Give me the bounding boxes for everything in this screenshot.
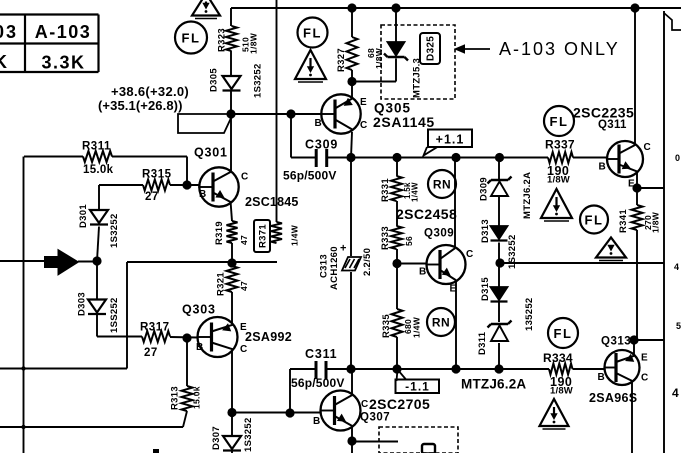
svg-text:+: + — [340, 243, 346, 255]
svg-text:4: 4 — [674, 262, 679, 272]
svg-text:2SA1145: 2SA1145 — [373, 114, 435, 130]
svg-text:56: 56 — [404, 236, 414, 246]
svg-text:FL: FL — [585, 213, 604, 228]
svg-text:R315: R315 — [142, 169, 172, 181]
svg-text:R334: R334 — [543, 351, 573, 365]
svg-text:D315: D315 — [480, 277, 491, 301]
svg-text:27: 27 — [144, 347, 158, 359]
svg-text:C: C — [240, 344, 247, 355]
svg-text:R319: R319 — [214, 221, 225, 245]
svg-text:D301: D301 — [78, 204, 89, 228]
svg-text:27: 27 — [145, 191, 159, 203]
svg-text:R313: R313 — [169, 386, 180, 410]
svg-text:R311: R311 — [82, 141, 111, 153]
svg-text:C: C — [241, 172, 248, 183]
svg-text:Q311: Q311 — [598, 119, 627, 131]
svg-text:R321: R321 — [215, 272, 226, 296]
svg-text:FL: FL — [303, 26, 322, 41]
svg-text:B: B — [315, 118, 322, 129]
svg-text:1/4W: 1/4W — [290, 224, 300, 246]
svg-text:2SA992: 2SA992 — [245, 330, 292, 344]
svg-text:E: E — [628, 179, 635, 190]
svg-text:D313: D313 — [480, 219, 491, 243]
svg-text:1/8W: 1/8W — [374, 47, 384, 69]
svg-text:135252: 135252 — [524, 297, 535, 331]
svg-text:2SC2705: 2SC2705 — [369, 396, 430, 412]
svg-text:C: C — [644, 142, 651, 153]
svg-text:3.3K: 3.3K — [41, 53, 85, 73]
svg-text:5: 5 — [676, 321, 681, 331]
svg-text:A-103: A-103 — [35, 22, 92, 42]
svg-text:47: 47 — [239, 281, 249, 291]
svg-text:1/8W: 1/8W — [547, 175, 570, 186]
svg-text:C309: C309 — [305, 138, 338, 152]
svg-text:R333: R333 — [380, 226, 391, 250]
svg-text:RN: RN — [433, 178, 451, 192]
svg-text:B: B — [199, 189, 206, 200]
svg-text:+1.1: +1.1 — [436, 133, 465, 147]
svg-text:MTZJ6.2A: MTZJ6.2A — [522, 172, 533, 219]
svg-text:FL: FL — [550, 114, 569, 129]
svg-text:B: B — [313, 416, 320, 427]
svg-text:0: 0 — [675, 153, 680, 163]
svg-text:B: B — [419, 267, 426, 278]
svg-text:B: B — [599, 162, 606, 173]
svg-text:D325: D325 — [426, 36, 437, 61]
svg-text:R371: R371 — [257, 224, 268, 248]
svg-text:(+35.1(+26.8)): (+35.1(+26.8)) — [98, 98, 183, 113]
svg-text:FL: FL — [182, 31, 201, 46]
svg-text:ACH1260: ACH1260 — [329, 246, 340, 290]
svg-text:1S3252: 1S3252 — [243, 417, 254, 452]
svg-text:C: C — [466, 249, 473, 260]
svg-text:1/4W: 1/4W — [410, 182, 419, 202]
svg-text:03: 03 — [0, 22, 18, 42]
svg-text:R335: R335 — [381, 314, 392, 338]
svg-text:K: K — [0, 52, 9, 72]
svg-text:+38.6(+32.0): +38.6(+32.0) — [111, 84, 189, 99]
svg-text:2SC2458: 2SC2458 — [396, 206, 457, 222]
svg-text:47: 47 — [239, 235, 249, 245]
svg-text:C: C — [361, 399, 368, 410]
svg-text:2SC1845: 2SC1845 — [245, 195, 299, 209]
svg-text:1SS252: 1SS252 — [109, 297, 120, 333]
svg-text:D307: D307 — [211, 426, 222, 450]
svg-text:C311: C311 — [305, 347, 337, 361]
svg-text:D311: D311 — [477, 331, 488, 355]
svg-text:MTZJ5.3: MTZJ5.3 — [411, 58, 422, 98]
svg-text:C: C — [641, 373, 648, 384]
svg-text:B: B — [598, 372, 605, 383]
svg-text:E: E — [450, 284, 457, 295]
svg-text:1S3252: 1S3252 — [507, 234, 518, 269]
svg-text:A-103 ONLY: A-103 ONLY — [499, 39, 620, 59]
svg-text:R323: R323 — [216, 28, 227, 52]
svg-text:1S3252: 1S3252 — [252, 63, 263, 98]
svg-text:E: E — [240, 322, 247, 333]
svg-text:C: C — [360, 120, 367, 131]
svg-text:Q307: Q307 — [360, 412, 390, 424]
svg-text:Q313: Q313 — [601, 336, 631, 348]
svg-text:Q303: Q303 — [182, 303, 216, 317]
svg-text:D303: D303 — [76, 292, 87, 316]
svg-text:B: B — [196, 342, 203, 353]
svg-text:4: 4 — [672, 386, 679, 400]
svg-text:56p/500V: 56p/500V — [291, 376, 345, 390]
svg-text:Q301: Q301 — [194, 146, 228, 160]
svg-text:1/8W: 1/8W — [249, 32, 259, 54]
svg-text:1/8W: 1/8W — [651, 211, 661, 233]
svg-text:R331: R331 — [380, 178, 391, 202]
svg-text:15.0k: 15.0k — [192, 386, 202, 409]
svg-text:Q309: Q309 — [424, 228, 454, 240]
svg-text:56p/500V: 56p/500V — [283, 169, 337, 183]
svg-text:2.2/50: 2.2/50 — [362, 248, 373, 276]
svg-text:E: E — [360, 97, 367, 108]
svg-text:E: E — [641, 353, 648, 364]
svg-text:R341: R341 — [618, 209, 629, 233]
svg-text:D309: D309 — [478, 177, 489, 201]
svg-text:R337: R337 — [545, 138, 575, 152]
svg-text:R317: R317 — [140, 322, 170, 334]
svg-text:C313: C313 — [318, 254, 329, 278]
svg-text:15.0k: 15.0k — [83, 164, 114, 176]
svg-text:-1.1: -1.1 — [405, 380, 430, 394]
svg-text:1S3252: 1S3252 — [109, 213, 120, 248]
svg-text:1/8W: 1/8W — [550, 386, 573, 397]
svg-text:FL: FL — [554, 326, 573, 341]
svg-text:D305: D305 — [208, 68, 219, 92]
svg-text:R327: R327 — [336, 48, 347, 72]
svg-text:1/4W: 1/4W — [412, 316, 422, 338]
svg-text:2SA96S: 2SA96S — [589, 391, 637, 405]
svg-text:MTZJ6.2A: MTZJ6.2A — [461, 377, 526, 392]
svg-text:RN: RN — [432, 316, 450, 330]
